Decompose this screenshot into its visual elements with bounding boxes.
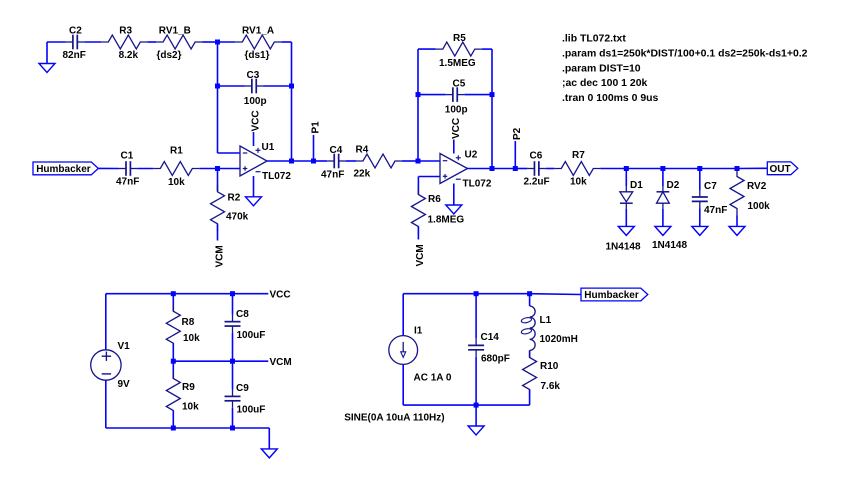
- net label VCM under R2: [214, 245, 225, 267]
- wire R10 bottom: [529, 390, 531, 406]
- svg-text:7.6k: 7.6k: [541, 381, 561, 392]
- ground D1: [618, 226, 634, 235]
- node C7 junction: [697, 166, 702, 171]
- wire I1 top column: [402, 294, 404, 336]
- wire D1 top: [625, 169, 627, 187]
- wire C7-RV2 row: [700, 168, 737, 170]
- wire flag-C1: [98, 167, 119, 169]
- wire C14 stub top: [475, 294, 477, 339]
- svg-text:22k: 22k: [354, 169, 371, 180]
- svg-text:1.8MEG: 1.8MEG: [428, 215, 465, 226]
- svg-text:U1: U1: [262, 142, 275, 153]
- wire R5 row left: [418, 48, 436, 50]
- svg-text:9V: 9V: [118, 379, 131, 390]
- svg-text:VCC: VCC: [251, 110, 262, 131]
- capacitor C7: [692, 181, 728, 216]
- svg-text:P2: P2: [512, 127, 523, 140]
- node C3 right junction: [289, 84, 294, 89]
- node C3 left junction: [215, 84, 220, 89]
- power label VCC above U2: [451, 118, 462, 139]
- svg-text:VCM: VCM: [214, 245, 225, 267]
- svg-text:AC 1A 0: AC 1A 0: [414, 373, 452, 384]
- node L1 top junction: [527, 291, 532, 296]
- svg-text:R9: R9: [182, 382, 195, 393]
- wire out-P1: [292, 160, 314, 162]
- wire node-RV1A: [218, 41, 236, 43]
- wire C9 stub bottom: [232, 408, 234, 428]
- resistor RV2: [730, 170, 770, 216]
- svg-text:10k: 10k: [570, 177, 587, 188]
- svg-text:47nF: 47nF: [321, 170, 344, 181]
- wire right feedback column U1: [291, 42, 293, 161]
- svg-text:C3: C3: [247, 70, 260, 81]
- diode D1: [606, 180, 644, 253]
- svg-text:TL072: TL072: [262, 171, 291, 182]
- node D2 junction: [660, 166, 665, 171]
- wire C2-gnd row: [47, 41, 66, 43]
- wire RV1A-right corner: [281, 41, 291, 43]
- ground (top-left, C2 left): [39, 42, 55, 73]
- wire L1 stub top: [529, 294, 531, 306]
- node C14 top junction: [474, 291, 479, 296]
- svg-text:R2: R2: [228, 193, 241, 204]
- svg-text:D1: D1: [630, 180, 643, 191]
- svg-text:VCC: VCC: [270, 290, 291, 301]
- wire RV1B-node: [202, 41, 217, 43]
- svg-text:RV1_B: RV1_B: [159, 26, 191, 37]
- node D1 junction: [624, 166, 629, 171]
- node C8 top junction: [230, 291, 235, 296]
- wire source gnd drop: [475, 405, 477, 426]
- wire U1 V- to ground: [253, 176, 255, 197]
- wire left feedback column U2: [417, 49, 419, 161]
- wire D1 bottom: [625, 209, 627, 226]
- svg-text:47nF: 47nF: [116, 177, 139, 188]
- node RV2 junction: [735, 166, 740, 171]
- svg-text:82nF: 82nF: [63, 50, 86, 61]
- value label SINE for I1: [344, 413, 444, 424]
- svg-text:D2: D2: [667, 180, 680, 191]
- current source I1: [389, 326, 452, 384]
- svg-text:1.5MEG: 1.5MEG: [439, 58, 476, 69]
- wire D2 bottom: [662, 209, 664, 226]
- capacitor C3: [244, 70, 267, 107]
- wire R7-D1 node: [600, 168, 626, 170]
- svg-text:100p: 100p: [244, 96, 267, 107]
- svg-text:8.2k: 8.2k: [119, 50, 139, 61]
- svg-text:1020mH: 1020mH: [540, 334, 578, 345]
- svg-text:R8: R8: [182, 317, 195, 328]
- ground C7: [692, 226, 708, 235]
- inductor L1: [521, 306, 578, 350]
- resistor R4: [354, 145, 403, 180]
- voltage source V1: [91, 341, 130, 390]
- wire RV2-OUT flag: [737, 167, 767, 169]
- svg-text:10k: 10k: [183, 333, 200, 344]
- wire C1-R1: [137, 168, 153, 170]
- resistor R6: [411, 188, 464, 234]
- capacitor C14: [468, 332, 510, 365]
- wire C3 row right: [263, 85, 291, 87]
- node feedback/output junction U1: [289, 159, 294, 164]
- wire C7 bottom: [699, 208, 701, 226]
- ground RV2: [729, 226, 745, 235]
- wire R3-RV1B: [147, 41, 156, 43]
- svg-text:VCM: VCM: [415, 244, 426, 266]
- svg-text:100uF: 100uF: [237, 405, 266, 416]
- node C5 right junction: [490, 92, 495, 97]
- svg-text:SINE(0A 10uA 110Hz): SINE(0A 10uA 110Hz): [344, 413, 444, 424]
- wire C3 row left: [218, 85, 245, 87]
- net label VCM rail: [270, 357, 292, 368]
- resistor R10: [523, 351, 561, 397]
- node P2 junction: [513, 166, 518, 171]
- net label VCM under R6: [415, 244, 426, 266]
- power label VCC above U1: [251, 110, 262, 131]
- capacitor C1: [116, 151, 139, 188]
- svg-text:C5: C5: [453, 79, 466, 90]
- label P2 with stub: [512, 127, 523, 168]
- wire P1-C4: [314, 160, 328, 162]
- svg-text:C1: C1: [121, 151, 134, 162]
- wire V1 bottom column: [105, 380, 107, 428]
- svg-text:.tran 0 100ms 0 9us: .tran 0 100ms 0 9us: [562, 93, 659, 104]
- wire top row to Humbacker flag: [530, 293, 582, 296]
- wire right feedback column U2: [491, 49, 493, 168]
- wire R9 stub bottom: [172, 411, 174, 429]
- wire U1 inverting input: [218, 152, 241, 154]
- wire U1 output: [267, 160, 292, 162]
- svg-text:{ds2}: {ds2}: [157, 50, 182, 61]
- capacitor C5: [445, 79, 468, 116]
- wire D2-C7 row: [663, 168, 700, 170]
- svg-text:680pF: 680pF: [481, 354, 510, 365]
- node U2 inverting junction: [416, 159, 421, 164]
- svg-text:C14: C14: [481, 332, 500, 343]
- wire C5 row left: [418, 94, 446, 96]
- wire C8 stub bottom: [232, 333, 234, 361]
- wire RV2 top: [736, 169, 738, 170]
- wire R1-node: [199, 168, 217, 170]
- wire supply bottom row: [106, 427, 269, 429]
- node C14 bottom junction: [474, 403, 479, 408]
- wire node-U2 minus input: [418, 160, 440, 162]
- wire U2 output: [468, 168, 493, 170]
- svg-text:Humbacker: Humbacker: [36, 164, 91, 175]
- wire R9 stub top: [172, 361, 174, 378]
- wire C5 row right: [464, 94, 492, 96]
- wire VCM row: [173, 360, 268, 362]
- flag Humbacker source: [581, 288, 648, 301]
- wire R8 stub bottom: [172, 343, 174, 361]
- svg-text:R5: R5: [453, 33, 466, 44]
- wire R6-VCM: [417, 227, 419, 240]
- svg-text:C9: C9: [236, 383, 249, 394]
- wire U1 V+ to VCC: [253, 132, 255, 146]
- wire C2-R3: [84, 41, 101, 43]
- svg-text:TL072: TL072: [463, 179, 492, 190]
- svg-text:OUT: OUT: [770, 164, 791, 175]
- svg-text:;ac dec 100 1 20k: ;ac dec 100 1 20k: [562, 78, 647, 89]
- capacitor C9: [225, 383, 266, 416]
- resistor R8: [166, 304, 200, 350]
- svg-text:I1: I1: [414, 326, 423, 337]
- svg-text:C4: C4: [330, 145, 343, 156]
- node C9 top junction: [230, 359, 235, 364]
- wire C4-R4: [346, 160, 356, 162]
- svg-text:.param ds1=250k*DIST/100+0.1 d: .param ds1=250k*DIST/100+0.1 ds2=250k-ds…: [562, 49, 808, 60]
- wire node-U1 plus input: [218, 168, 241, 170]
- svg-text:P1: P1: [310, 121, 321, 134]
- resistor R9: [166, 372, 199, 418]
- node C9 bottom junction: [230, 426, 235, 431]
- svg-text:V1: V1: [118, 341, 131, 352]
- svg-text:100p: 100p: [445, 105, 468, 116]
- node feedback/output junction U2: [490, 166, 495, 171]
- wire C14 stub bottom: [475, 357, 477, 405]
- capacitor C8: [225, 309, 266, 341]
- svg-text:100k: 100k: [748, 201, 771, 212]
- svg-text:R4: R4: [356, 145, 369, 156]
- resistor RV1_B: [156, 26, 202, 62]
- svg-text:RV2: RV2: [747, 181, 767, 192]
- svg-text:VCC: VCC: [451, 118, 462, 139]
- resistor R1: [153, 146, 199, 189]
- wire supply gnd drop: [268, 428, 270, 449]
- node R9 top junction: [171, 359, 176, 364]
- wire node-R2: [217, 169, 219, 192]
- svg-text:C2: C2: [69, 26, 82, 37]
- svg-text:R6: R6: [428, 194, 441, 205]
- wire C7 top: [699, 169, 701, 191]
- node R2 top junction: [215, 166, 220, 171]
- ground source block: [468, 426, 484, 435]
- capacitor C4: [321, 145, 346, 181]
- svg-text:R3: R3: [119, 26, 132, 37]
- wire source bottom row: [403, 404, 529, 406]
- resistor R7: [554, 150, 600, 188]
- svg-text:R7: R7: [572, 150, 585, 161]
- svg-text:L1: L1: [540, 315, 552, 326]
- svg-text:R1: R1: [170, 146, 183, 157]
- flag Humbacker input: [33, 162, 98, 175]
- svg-text:.lib TL072.txt: .lib TL072.txt: [562, 34, 626, 45]
- svg-text:100uF: 100uF: [237, 330, 266, 341]
- resistor RV1_A: [235, 26, 281, 62]
- wire left feedback column U1: [217, 42, 219, 153]
- wire D2 top: [662, 169, 664, 187]
- wire V1 top row: [106, 293, 268, 295]
- svg-text:C6: C6: [530, 151, 543, 162]
- wire V1 top column: [105, 294, 107, 350]
- capacitor C2: [63, 26, 86, 62]
- spice directive text block: [562, 34, 808, 104]
- node P1 junction: [311, 159, 316, 164]
- resistor R5: [436, 33, 482, 69]
- wire P2-C6: [515, 168, 527, 170]
- ground U1: [246, 197, 262, 206]
- node R9 bottom junction: [171, 426, 176, 431]
- svg-text:10k: 10k: [168, 177, 185, 188]
- wire I1 bottom column: [402, 364, 404, 405]
- op-amp U1: [240, 142, 291, 182]
- node C5 left junction: [416, 92, 421, 97]
- svg-text:U2: U2: [465, 150, 478, 161]
- svg-text:VCM: VCM: [270, 357, 292, 368]
- net label VCC rail: [270, 290, 291, 301]
- svg-text:C7: C7: [704, 181, 717, 192]
- diode D2: [652, 180, 687, 251]
- node R8 top junction: [171, 291, 176, 296]
- svg-text:Humbacker: Humbacker: [584, 290, 639, 301]
- ground U2: [446, 205, 462, 214]
- svg-text:47nF: 47nF: [704, 205, 727, 216]
- wire I1 top row: [403, 293, 529, 295]
- wire R8 stub top: [172, 294, 174, 312]
- wire out-P2: [492, 168, 515, 170]
- wire U2 plus input to R6: [418, 177, 440, 195]
- svg-text:{ds1}: {ds1}: [245, 50, 270, 61]
- wire RV2 bottom: [736, 216, 738, 227]
- svg-text:1N4148: 1N4148: [606, 242, 641, 253]
- wire U2 V- to ground: [453, 184, 455, 206]
- resistor R2: [211, 185, 249, 231]
- svg-text:10k: 10k: [182, 402, 199, 413]
- wire U2 V+ to VCC: [453, 140, 455, 154]
- resistor R3: [101, 26, 147, 62]
- svg-text:R10: R10: [540, 361, 559, 372]
- svg-text:RV1_A: RV1_A: [242, 26, 274, 37]
- svg-text:470k: 470k: [226, 212, 249, 223]
- wire C8 stub top: [232, 294, 234, 315]
- label P1 with stub: [310, 121, 321, 161]
- op-amp U2: [440, 150, 492, 190]
- wire D1-D2 row: [626, 168, 663, 170]
- wire R5 row right: [482, 48, 492, 50]
- wire C6-R7: [546, 168, 554, 170]
- wire R4-node: [402, 160, 418, 162]
- wire C9 stub top: [232, 361, 234, 389]
- flag OUT: [767, 162, 798, 175]
- capacitor C6: [524, 151, 550, 188]
- node RV1B/RV1A junction: [215, 40, 220, 45]
- wire R2-VCM: [217, 224, 219, 240]
- svg-text:1N4148: 1N4148: [652, 240, 687, 251]
- ground D2: [655, 226, 671, 235]
- wire L1-R10: [529, 350, 531, 357]
- svg-text:.param DIST=10: .param DIST=10: [562, 63, 641, 74]
- svg-text:2.2uF: 2.2uF: [524, 177, 550, 188]
- svg-text:C8: C8: [236, 309, 249, 320]
- ground supply block: [261, 449, 277, 458]
